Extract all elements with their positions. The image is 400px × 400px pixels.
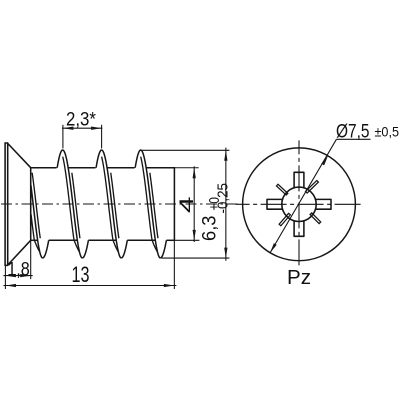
svg-text:Ø7,5: Ø7,5 bbox=[336, 120, 370, 142]
svg-text:2,3*: 2,3* bbox=[66, 108, 96, 130]
svg-text:1,8: 1,8 bbox=[7, 260, 30, 281]
svg-text:-0,25: -0,25 bbox=[214, 183, 231, 214]
svg-text:13: 13 bbox=[72, 262, 90, 287]
svg-text:±0,5: ±0,5 bbox=[375, 123, 400, 139]
svg-text:6,3: 6,3 bbox=[198, 216, 220, 242]
svg-text:4: 4 bbox=[176, 196, 198, 213]
svg-text:Pz: Pz bbox=[287, 267, 311, 289]
